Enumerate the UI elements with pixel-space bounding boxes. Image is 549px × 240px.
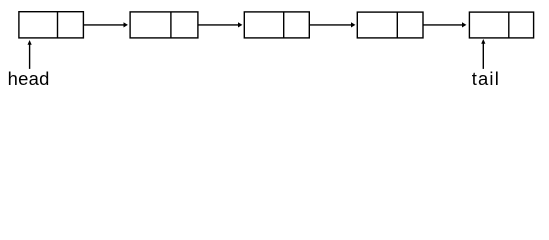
svg-text:head: head xyxy=(8,68,50,89)
svg-text:tail: tail xyxy=(472,68,500,89)
